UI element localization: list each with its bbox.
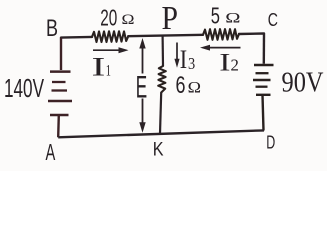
svg-text:Ω: Ω (225, 10, 240, 27)
label I3 (180, 45, 195, 74)
svg-text:90V: 90V (282, 67, 324, 99)
label I1 (92, 53, 112, 82)
svg-text:P: P (162, 0, 179, 37)
svg-text:3: 3 (188, 54, 195, 73)
svg-text:Ω: Ω (188, 79, 201, 96)
arrow I2 (200, 45, 241, 51)
svg-text:E: E (136, 68, 147, 104)
svg-text:Ω: Ω (122, 12, 135, 28)
svg-text:20: 20 (100, 5, 117, 31)
svg-text:B: B (46, 15, 58, 42)
battery 90V plate long mid (253, 79, 271, 81)
wire 20ohm to P to 5ohm (128, 35, 203, 36)
wire battery to D (263, 95, 264, 131)
battery 90V plate short2 (256, 86, 268, 88)
battery 140V plate long top (50, 70, 71, 73)
arrow I1 (93, 47, 129, 53)
wire battery to A (57, 115, 60, 137)
wire 6ohm to K (160, 93, 161, 134)
resistor 6ohm zigzag (158, 66, 166, 93)
arrow E double-headed (139, 38, 145, 133)
battery 140V plate short2 (52, 89, 68, 91)
battery 140V plate short (52, 81, 66, 83)
battery 90V plate short (256, 72, 269, 74)
wire right C down to battery (263, 34, 266, 64)
wire 5ohm to C (239, 32, 264, 35)
wire left B down to battery (60, 38, 62, 70)
battery 90V terminal plate (256, 94, 271, 96)
svg-text:1: 1 (106, 63, 111, 80)
wire bottom A to D (58, 130, 264, 137)
svg-text:A: A (46, 139, 56, 165)
battery 90V plate long top (254, 64, 274, 67)
battery 140V plate long bottom (48, 100, 72, 103)
svg-text:K: K (153, 139, 164, 161)
resistor 20ohm zigzag (92, 31, 128, 42)
arrow I3 (174, 43, 179, 68)
svg-text:5: 5 (211, 3, 220, 29)
svg-text:I: I (180, 45, 187, 74)
svg-text:140V: 140V (4, 73, 44, 103)
wire top B to 20ohm (61, 36, 92, 39)
battery 140V terminal plate (50, 114, 69, 116)
label I2 (219, 48, 239, 77)
svg-text:6: 6 (176, 72, 186, 99)
resistor 5ohm zigzag (203, 29, 239, 40)
svg-text:2: 2 (231, 56, 239, 75)
svg-text:I: I (219, 48, 230, 77)
wire P down to 6ohm (162, 36, 165, 66)
svg-text:I: I (92, 53, 106, 82)
svg-text:C: C (268, 9, 278, 30)
svg-text:D: D (266, 133, 275, 153)
